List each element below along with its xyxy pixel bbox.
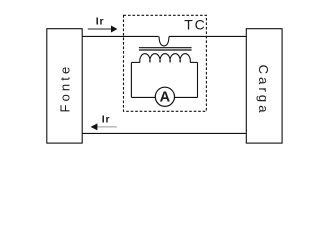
wire: loop bottom left xyxy=(131,96,155,98)
wire: loop left side xyxy=(130,62,132,97)
wire: loop right side xyxy=(197,62,199,97)
arrow Ir bottom xyxy=(97,126,117,128)
svg-text:TC: TC xyxy=(184,17,206,33)
dashed enclosure TC xyxy=(124,15,207,111)
secondary winding xyxy=(140,54,191,63)
wire: secondary right stub xyxy=(190,61,197,63)
load block Carga xyxy=(246,29,282,143)
wire top: Fonte to primary xyxy=(82,35,158,37)
core of transformer TC xyxy=(139,47,192,49)
wire: loop bottom right xyxy=(175,96,198,98)
svg-text:Ir: Ir xyxy=(102,114,111,126)
primary half-turn of TC xyxy=(159,36,169,46)
svg-text:Fonte: Fonte xyxy=(57,64,72,113)
wire top: primary to Carga xyxy=(169,35,246,37)
wire bottom: Carga to Fonte xyxy=(82,132,246,134)
svg-text:Ir: Ir xyxy=(96,15,105,27)
ammeter A xyxy=(155,87,174,106)
arrow Ir top xyxy=(88,28,111,30)
source block Fonte xyxy=(47,29,82,143)
wire: secondary left stub xyxy=(131,61,140,63)
svg-text:Carga: Carga xyxy=(256,65,271,116)
svg-text:A: A xyxy=(160,89,171,105)
